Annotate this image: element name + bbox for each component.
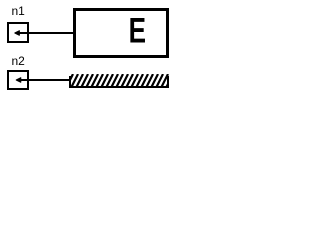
node n1 terminal box xyxy=(8,23,28,42)
ground wall bottom edge xyxy=(69,86,169,88)
ground wall right edge xyxy=(167,76,169,88)
ground wall left edge xyxy=(69,76,71,88)
background xyxy=(0,0,173,96)
svg-text:n1: n1 xyxy=(12,4,26,18)
svg-text:E: E xyxy=(129,11,146,51)
ground wall hatching xyxy=(66,74,173,88)
node n2 terminal box xyxy=(8,71,28,89)
wire n1 to E block xyxy=(16,32,74,34)
source block U1 outline xyxy=(75,10,168,57)
node n1 arrowhead xyxy=(15,31,20,36)
wire n2 to ground wall xyxy=(17,79,70,81)
svg-text:n2: n2 xyxy=(12,54,26,68)
node n2 arrowhead xyxy=(16,78,21,83)
